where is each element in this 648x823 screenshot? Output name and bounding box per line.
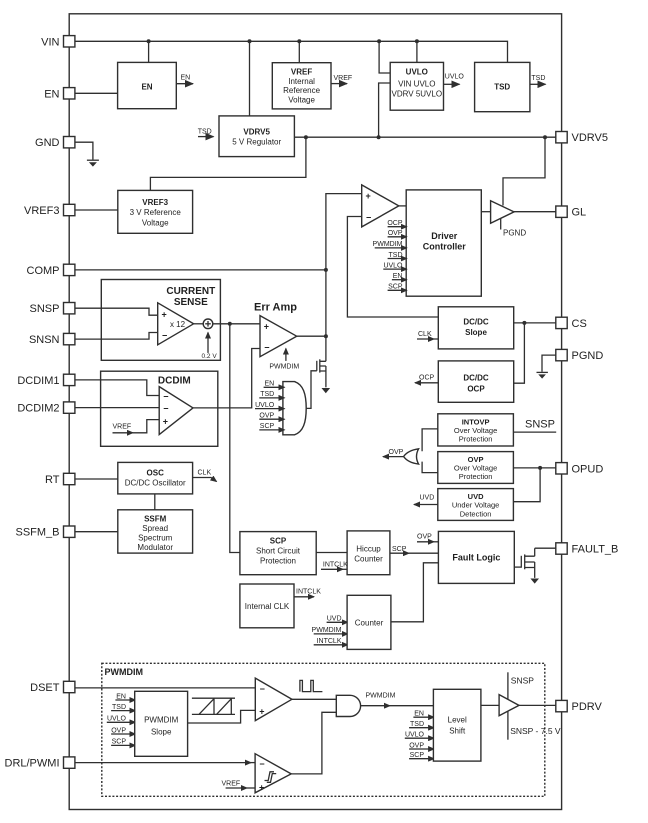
svg-text:OVP: OVP [417,534,432,541]
svg-text:EN: EN [393,273,403,280]
svg-text:PGND: PGND [572,350,604,362]
wire PWMDIM Slope output to comparator [188,710,256,723]
svg-text:DCDIM1: DCDIM1 [17,375,59,387]
wire PWM comparator minus input to slope [347,217,438,318]
svg-text:UVD: UVD [420,495,435,502]
svg-text:Counter: Counter [354,555,383,564]
node OPUD junction [538,466,542,470]
svg-text:GL: GL [572,207,587,219]
svg-text:−: − [163,404,168,414]
svg-text:TSD: TSD [531,75,545,82]
block Level Shift [433,689,481,761]
svg-text:DCDIM2: DCDIM2 [17,403,59,415]
svg-text:PGND: PGND [503,229,526,238]
signal CLK into DC/DC Slope [417,331,438,339]
wire DCDIM2 pin to comparator [75,407,159,409]
wire hysteresis comparator to AND gate [291,712,336,774]
node Err Amp output junction [324,334,328,338]
svg-text:DC/DC Oscillator: DC/DC Oscillator [125,478,186,487]
svg-text:SCP: SCP [112,739,127,746]
signal VREF into DCDIM comparator [113,420,160,433]
pin GND [35,137,75,150]
node summing junction 0.2V offset [203,319,213,329]
svg-text:x 12: x 12 [170,320,186,329]
pin SNSN [29,333,75,346]
or-gate fault pulldown OR [283,382,306,435]
op-amp PWM dim comparator [255,678,292,721]
wire SNSN pin to x12 minus input [75,333,158,340]
signal INTCLK into Counter [314,638,348,645]
block EN [118,62,177,108]
block PWMDIM Slope [135,691,188,756]
wire VIN to UVLO top [416,41,418,62]
pin CS [556,317,587,330]
wire fault OR output to MOSFET gate [307,371,317,409]
block SCP short circuit protection [240,532,316,575]
svg-text:SCP: SCP [388,284,403,291]
signal SCP input to Driver Controller [388,284,407,291]
wire PWM comparator plus input [326,194,362,362]
svg-text:EN: EN [44,88,59,100]
wire summer to Err Amp plus input [213,323,260,325]
signal 0.2 V offset arrow [202,333,218,361]
pin PGND [556,349,604,362]
wire slope to DC/DC OCP [514,323,525,383]
wire DCDIM output to Err Amp minus [193,349,260,408]
pin OPUD [556,463,604,476]
op-amp x12 current sense amplifier [158,303,194,345]
ground PGND symbol [537,372,548,378]
svg-text:−: − [162,331,167,341]
wire OPUD to UVD block [513,468,540,502]
block VREF3 reference [118,190,193,233]
wire VDRV5 rail [294,136,555,138]
and-gate PWMDIM combine [336,695,360,716]
signal PWMDIM arrow into Err Amp [269,349,299,371]
svg-text:TSD: TSD [389,252,403,259]
wire VDRV5 to VREF3 block [150,137,306,190]
signal INTCLK into Hiccup Counter [321,562,348,570]
svg-text:PDRV: PDRV [572,701,603,713]
node VDRV5-UVLO junction [377,135,381,139]
signal UVLO output arrow [444,74,465,85]
svg-text:Detection: Detection [460,509,492,518]
svg-text:Under Voltage: Under Voltage [452,501,500,510]
svg-text:+: + [163,417,168,427]
svg-text:−: − [163,392,168,402]
node VIN-UVLO junction [377,39,381,43]
signal PWMDIM into Counter [312,627,348,634]
svg-text:SENSE: SENSE [174,297,208,308]
svg-text:+: + [259,783,264,793]
pin DCDIM2 [17,402,75,415]
svg-text:DSET: DSET [30,682,60,694]
wire Err Amp output [297,335,326,337]
svg-text:VREF: VREF [113,423,132,430]
wire EN pin to EN block [75,92,118,94]
svg-text:OCP: OCP [387,220,403,227]
svg-text:SCP: SCP [270,537,287,546]
signal PWMDIM output of AND gate [361,693,434,706]
block UVLO [390,62,443,110]
svg-text:OVP: OVP [389,449,404,456]
wire x12 output to summer [194,323,204,325]
svg-text:INTCLK: INTCLK [296,588,321,595]
signal UVLO into Level Shift [405,732,434,739]
signal OVP input to Driver Controller [388,230,407,237]
svg-text:GND: GND [35,137,60,149]
signal OCP input to Driver Controller [387,220,406,227]
signal UVD into Counter [327,615,348,622]
wire VIN to VREF block [298,41,300,62]
pin SNSP [30,303,75,316]
svg-text:TSD: TSD [494,83,510,92]
wire GND pin to ground [75,142,93,159]
svg-text:Slope: Slope [465,328,487,337]
pin RT [45,473,75,486]
svg-text:INTCLK: INTCLK [323,562,348,569]
signal VREF into hysteresis comparator [222,781,256,788]
svg-text:CLK: CLK [418,331,432,338]
node VIN-EN junction [147,39,151,43]
svg-text:CLK: CLK [198,470,212,477]
wire OVP block to OVP or-gate [422,462,438,473]
svg-text:PWMDIM: PWMDIM [105,667,144,677]
node VDRV5-GLdriver junction [543,135,547,139]
pin VREF3 [24,204,75,217]
wire VIN rail [75,41,508,62]
signal SCP input to fault OR [259,423,284,430]
block Fault Logic [438,531,514,583]
svg-text:0.2 V: 0.2 V [202,353,218,360]
svg-text:UVLO: UVLO [405,732,425,739]
svg-text:Protection: Protection [459,435,493,444]
svg-text:DRL/PWMI: DRL/PWMI [5,758,60,770]
svg-text:Controller: Controller [423,242,466,252]
wire VREF3 pin to block [75,209,118,211]
or-gate OVP combine (left facing) [404,449,419,464]
svg-text:UVLO: UVLO [255,402,275,409]
wire VDRV5 to UVLO input [379,83,391,137]
svg-text:PWMDIM: PWMDIM [373,241,403,248]
svg-text:FAULT_B: FAULT_B [572,544,619,556]
svg-text:VDRV5: VDRV5 [572,132,608,144]
signal TSD input to fault OR [259,391,284,398]
svg-text:TSD: TSD [410,721,424,728]
svg-text:TSD: TSD [112,704,126,711]
svg-text:INTCLK: INTCLK [317,638,342,645]
wire SNSP supply rail of PDRV buffer [508,672,534,699]
svg-text:−: − [260,684,265,694]
block DC/DC OCP [438,361,513,402]
svg-text:EN: EN [414,711,424,718]
block TSD [475,62,530,111]
pin FAULT_B [556,543,619,556]
wire COMP pin to COMP net [75,269,326,271]
svg-text:OSC: OSC [147,468,165,477]
svg-text:OVP: OVP [388,230,403,237]
svg-text:OVP: OVP [259,413,274,420]
signal SCP into Level Shift [409,752,434,759]
buffer GL gate driver [491,201,514,224]
signal EN input to Driver Controller [392,273,407,280]
wire Counter to Fault Logic [391,563,439,622]
wire VIN to VDRV5 block [249,41,251,116]
block INTOVP [438,414,514,446]
svg-text:DCDIM: DCDIM [158,375,191,386]
svg-text:Spectrum: Spectrum [138,533,173,542]
block VDRV5 regulator [219,116,294,157]
op-amp hysteresis comparator [255,754,291,793]
svg-text:UVLO: UVLO [107,716,127,723]
block Internal CLK [240,584,294,628]
svg-text:EN: EN [264,381,274,388]
svg-text:Internal: Internal [288,77,315,86]
svg-text:+: + [162,310,167,320]
svg-text:Shift: Shift [449,727,466,736]
icon square wave [300,680,323,691]
block Counter [347,595,391,649]
node current sense output junction [228,322,232,326]
signal OVP input to fault OR [259,413,284,420]
ground FAULT_B source [530,579,539,584]
block PWMDIM section (dashed) [102,663,545,796]
signal TSD into Level Shift [409,721,434,728]
svg-text:Spread: Spread [142,524,168,533]
signal UVLO into PWMDIM Slope [107,716,136,723]
signal UVD output arrow left [414,495,438,505]
svg-text:TSD: TSD [260,391,274,398]
wire DRL arrow tail [249,762,255,764]
wire DCDIM1 pin to comparator [75,380,159,396]
wire Driver Controller to GL buffer [481,211,490,213]
svg-text:−: − [366,213,371,223]
wire current sense to SCP block [230,324,240,553]
wire PWM comparator output [399,205,406,207]
svg-text:RT: RT [45,474,60,486]
pin VIN [41,36,75,49]
svg-text:PWMDIM: PWMDIM [312,627,342,634]
node slope-OCP junction [522,321,526,325]
svg-text:COMP: COMP [27,265,60,277]
svg-text:SNSP: SNSP [30,303,60,315]
svg-text:SSFM: SSFM [144,514,167,523]
wire GL buffer to GL pin [514,211,556,213]
block UVD [438,489,514,521]
signal SCP into PWMDIM Slope [111,739,135,746]
svg-text:SCP: SCP [392,546,407,553]
svg-text:+: + [366,191,371,201]
pin EN [44,88,75,101]
node VIN-VREF junction [297,39,301,43]
signal EN into PWMDIM Slope [115,693,135,700]
signal EN into Level Shift [413,711,434,718]
svg-text:VDRV 5UVLO: VDRV 5UVLO [392,89,443,98]
wire SNSP pin to x12 plus input [75,308,158,315]
svg-text:VIN: VIN [41,36,59,48]
wire RT pin to OSC [75,478,118,480]
wire SNSP-7.5V rail of PDRV buffer [508,711,561,740]
wire PWM comparator to AND gate [292,698,336,700]
svg-text:TSD: TSD [198,129,212,136]
svg-text:PWMDIM: PWMDIM [269,364,299,371]
signal OCP output arrow left [415,374,438,383]
svg-text:OVP: OVP [409,742,424,749]
svg-text:SNSP: SNSP [525,419,555,431]
svg-text:UVLO: UVLO [406,68,428,77]
svg-text:CURRENT: CURRENT [166,286,215,297]
svg-text:−: − [264,343,269,353]
svg-text:UVD: UVD [468,492,484,501]
svg-text:SCP: SCP [260,423,275,430]
svg-text:Driver: Driver [431,231,458,241]
ground GND symbol [87,160,99,166]
pin DCDIM1 [17,374,75,387]
svg-text:PWMDIM: PWMDIM [144,715,179,724]
pin DSET [30,681,75,694]
pin VDRV5 [556,132,608,145]
svg-text:VDRV5: VDRV5 [243,127,270,136]
block VREF internal reference [272,63,331,109]
svg-text:OCP: OCP [467,385,485,394]
svg-text:OPUD: OPUD [572,463,604,475]
signal PWMDIM input to Driver Controller [373,241,407,248]
svg-text:+: + [264,322,269,332]
svg-text:−: − [259,759,264,769]
pin PDRV [556,700,603,713]
wire DSET pin to PWM comparator [75,687,255,689]
svg-text:UVLO: UVLO [445,74,465,81]
signal TSD input to Driver Controller [388,252,407,259]
svg-text:3 V Reference: 3 V Reference [130,208,182,217]
svg-text:5 V Regulator: 5 V Regulator [232,137,281,146]
svg-text:SCP: SCP [410,752,425,759]
pin DRL/PWMI [5,757,75,770]
svg-text:Fault Logic: Fault Logic [452,553,500,563]
block OVP [438,452,514,484]
svg-text:Reference: Reference [283,86,320,95]
svg-text:OCP: OCP [419,374,435,381]
node COMP junction [324,268,328,272]
svg-text:OVP: OVP [111,727,126,734]
signal EN output arrow [176,75,193,84]
svg-text:CS: CS [572,318,587,330]
wire OSC to SSFM [154,494,156,510]
signal TSD output arrow [530,75,546,85]
signal EN input to fault OR [264,381,285,388]
IC outer boundary [69,14,561,810]
node VIN-VDRV5 junction [248,39,252,43]
svg-text:UVLO: UVLO [383,262,403,269]
svg-text:VREF3: VREF3 [142,198,168,207]
svg-text:VREF: VREF [334,75,353,82]
ground COMP pulldown source [322,388,331,393]
block DC/DC Slope [438,307,513,349]
wire INTOVP to OVP or-gate [422,429,438,451]
svg-text:+: + [259,707,264,717]
svg-text:Counter: Counter [355,618,384,627]
svg-text:VIN UVLO: VIN UVLO [398,80,435,89]
op-amp DCDIM comparator [159,387,193,435]
signal OVP into PWMDIM Slope [111,727,135,734]
svg-text:EN: EN [181,75,191,82]
svg-text:DC/DC: DC/DC [463,318,489,327]
wire SCP to Hiccup Counter [316,552,347,554]
transistor FAULT_B open drain NMOS [521,548,534,578]
svg-text:Protection: Protection [459,472,493,481]
svg-text:DC/DC: DC/DC [463,374,489,383]
svg-text:SNSP - 7.5 V: SNSP - 7.5 V [510,726,561,736]
svg-text:EN: EN [141,83,152,92]
block SSFM [118,510,193,553]
wire SSFM_B pin to SSFM [75,531,118,533]
wire FAULT MOSFET drain to FAULT_B pin [535,547,556,549]
svg-text:Protection: Protection [260,557,296,566]
signal OVP into Fault Logic [417,534,438,542]
signal OVP into Level Shift [409,742,434,749]
svg-text:Hiccup: Hiccup [356,545,381,554]
signal TSD input arrow to VDRV5 [198,129,214,137]
pin GL [556,206,586,219]
signal VREF output arrow [331,75,352,84]
svg-text:INTOVP: INTOVP [462,417,490,426]
wire PGND pin to ground [542,355,556,372]
svg-text:Over Voltage: Over Voltage [454,464,497,473]
block Driver Controller [406,190,481,296]
svg-text:VREF: VREF [222,781,241,788]
svg-text:VREF: VREF [291,68,312,77]
svg-text:EN: EN [116,693,126,700]
svg-text:UVD: UVD [327,615,342,622]
signal CLK output of OSC [193,470,217,482]
wire DRL/PWMI pin to hysteresis comparator [75,762,251,764]
signal INTCLK output of Internal CLK [294,588,321,597]
icon sawtooth waveform [192,698,235,714]
svg-text:Over Voltage: Over Voltage [454,426,497,435]
buffer PDRV driver [499,695,519,716]
block Hiccup Counter [347,531,390,575]
ground PGND tick at GL driver [501,219,527,238]
signal UVLO input to fault OR [255,402,285,409]
svg-text:PWMDIM: PWMDIM [366,693,396,700]
wire PDRV buffer to PDRV pin [519,704,556,706]
svg-text:Modulator: Modulator [137,543,173,552]
signal OVP output arrow left [383,449,404,457]
svg-text:SNSN: SNSN [29,334,60,346]
svg-text:SSFM_B: SSFM_B [15,527,59,539]
signal UVLO input to Driver Controller [383,262,407,269]
svg-text:Voltage: Voltage [288,95,315,104]
block DCDIM [101,371,218,446]
svg-text:Level: Level [448,716,467,725]
wire Fault Logic to FAULT MOSFET gate [514,566,521,568]
svg-text:Slope: Slope [151,727,172,736]
node VIN-UVLO-top junction [415,39,419,43]
wire Level Shift to PDRV buffer [481,704,499,706]
pin COMP [27,264,75,277]
wire VDRV5 to GL driver supply [503,137,545,205]
wire DC/DC Slope output to CS pin [514,322,556,324]
svg-text:SNSP: SNSP [511,676,534,686]
svg-text:VREF3: VREF3 [24,205,59,217]
signal SCP output of Hiccup to Fault Logic [390,546,439,553]
pin SSFM_B [15,526,74,539]
op-amp Err Amp [254,302,297,357]
svg-text:OVP: OVP [468,455,484,464]
svg-text:Voltage: Voltage [142,218,169,227]
block OSC [118,462,193,494]
wire INTOVP SNSP sense input [513,419,556,433]
